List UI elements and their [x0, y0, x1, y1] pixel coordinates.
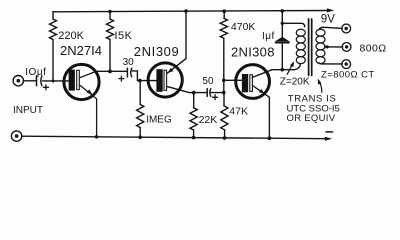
- svg-text:OR EQUIV: OR EQUIV: [287, 113, 336, 124]
- svg-text:800Ω: 800Ω: [360, 43, 387, 55]
- svg-text:INPUT: INPUT: [13, 105, 43, 116]
- svg-text:Z=20K: Z=20K: [280, 76, 310, 87]
- svg-text:9V: 9V: [321, 13, 335, 25]
- svg-text:2NI309: 2NI309: [134, 44, 180, 59]
- svg-text:IOμf: IOμf: [25, 67, 46, 78]
- svg-text:50: 50: [202, 76, 214, 87]
- svg-text:30: 30: [123, 57, 135, 68]
- svg-text:Iμf: Iμf: [262, 31, 275, 42]
- svg-text:470K: 470K: [231, 21, 256, 33]
- svg-text:2N27I4: 2N27I4: [60, 43, 102, 58]
- svg-text:I5K: I5K: [115, 30, 133, 42]
- svg-text:2NI308: 2NI308: [231, 45, 275, 60]
- svg-text:22K: 22K: [199, 114, 218, 126]
- svg-text:IMEG: IMEG: [146, 115, 172, 126]
- svg-text:220K: 220K: [58, 30, 84, 42]
- svg-text:47K: 47K: [229, 106, 248, 118]
- svg-text:Z=800Ω CT: Z=800Ω CT: [321, 69, 375, 80]
